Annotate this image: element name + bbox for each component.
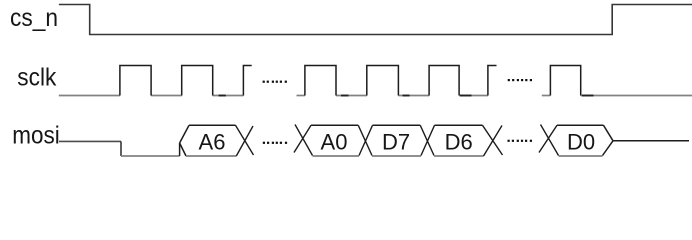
sclk low baseline stub after gap 1 xyxy=(297,95,305,97)
svg-text:D6: D6 xyxy=(445,130,473,155)
mosi low line xyxy=(121,155,180,157)
sclk low baseline stub after gap 2 xyxy=(542,95,551,97)
sclk low baseline segment 4 xyxy=(336,95,367,97)
sclk ellipsis dots group 1 xyxy=(263,81,287,83)
sclk low baseline segment 1 xyxy=(59,95,120,97)
bus crossing X before A0 xyxy=(294,125,313,156)
svg-text:sclk: sclk xyxy=(17,64,56,92)
mosi falling edge to low xyxy=(120,141,122,156)
sclk pulse 8 xyxy=(550,66,580,96)
bus A0 top edge xyxy=(311,124,358,126)
bus A6 opening upper slant xyxy=(180,125,189,143)
sclk low baseline tail segment xyxy=(581,95,692,97)
svg-text:D0: D0 xyxy=(567,130,595,155)
mosi idle mid line before transfer xyxy=(59,140,121,142)
bus D0 top edge xyxy=(557,124,604,126)
sclk pulse 5 xyxy=(367,66,399,96)
bus crossing X between A0 and D7 xyxy=(358,125,372,155)
sclk dark low mark after pulse 8 xyxy=(582,95,594,97)
bus D7 top edge xyxy=(373,124,421,126)
mosi rising edge into bus A6 xyxy=(179,143,181,156)
sclk low baseline segment 6 xyxy=(459,95,488,97)
bus D0 closing lower slant xyxy=(603,141,614,156)
sclk dark low mark after pulse 2 xyxy=(219,95,226,97)
svg-text:A0: A0 xyxy=(321,130,348,155)
svg-text:mosi: mosi xyxy=(12,122,60,150)
svg-text:A6: A6 xyxy=(199,130,226,155)
bus D0 bottom edge xyxy=(559,155,603,157)
bus crossing X after D6 xyxy=(483,125,503,156)
sclk pulse 7 truncated at gap xyxy=(488,66,497,96)
bus crossing X between D7 and D6 xyxy=(420,125,434,155)
mosi ellipsis dots group 1 xyxy=(263,142,287,144)
sclk pulse 4 xyxy=(305,66,336,96)
bus D7 bottom edge xyxy=(372,155,421,157)
sclk pulse 3 truncated at gap xyxy=(243,66,251,96)
sclk dark low mark after pulse 4 xyxy=(341,95,349,97)
sclk pulse 6 xyxy=(429,66,459,96)
bus crossing X before D0 xyxy=(539,125,559,156)
svg-text:D7: D7 xyxy=(382,130,410,155)
sclk low baseline segment 5 xyxy=(398,95,429,97)
sclk pulse 2 xyxy=(182,66,213,96)
sclk pulse 1 xyxy=(120,66,151,96)
bus A6 opening lower slant xyxy=(180,143,186,156)
sclk ellipsis dots group 2 xyxy=(508,79,532,81)
sclk low baseline segment 3 xyxy=(213,95,244,97)
sclk dark low mark after pulse 6 xyxy=(460,95,472,97)
sclk dark low mark after pulse 5 xyxy=(403,95,410,97)
bus D6 top edge xyxy=(435,124,483,126)
bus D6 bottom edge xyxy=(434,155,484,157)
bus A6 bottom edge xyxy=(186,155,236,157)
sclk low baseline segment 2 xyxy=(151,95,182,97)
mosi ellipsis dots group 2 xyxy=(508,140,533,142)
cs_n waveform: high, fall, low, rise, high xyxy=(59,5,692,35)
mosi idle mid line after transfer xyxy=(613,140,689,142)
bus D0 closing upper slant xyxy=(604,125,614,141)
bus A0 bottom edge xyxy=(313,155,360,157)
bus A6 top edge xyxy=(189,124,236,126)
bus crossing X after A6 xyxy=(236,125,254,156)
svg-text:cs_n: cs_n xyxy=(10,4,58,32)
